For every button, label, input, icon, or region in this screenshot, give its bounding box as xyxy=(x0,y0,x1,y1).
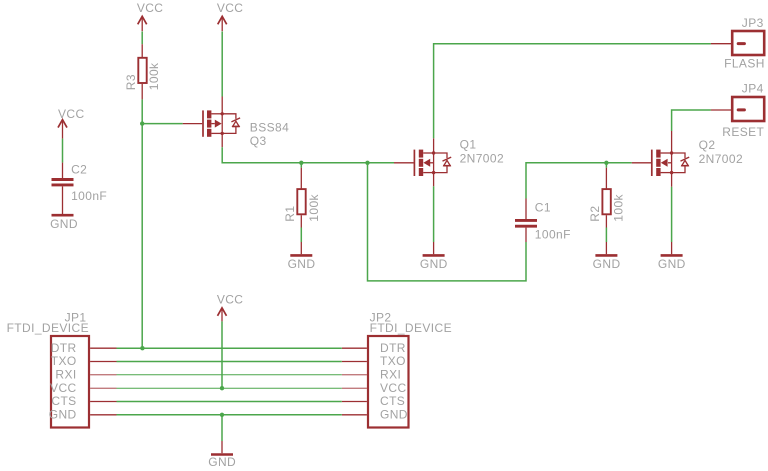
wire VCC to R3 xyxy=(141,32,143,45)
wire GND net xyxy=(117,414,342,416)
svg-text:2N7002: 2N7002 xyxy=(460,151,504,165)
svg-text:100nF: 100nF xyxy=(535,227,571,241)
supply VCC symbol above Q3 xyxy=(217,1,244,31)
svg-text:GND: GND xyxy=(49,407,77,421)
svg-text:CTS: CTS xyxy=(380,394,405,408)
junction node at R2 top xyxy=(604,161,608,165)
wire R3 bottom down to JP1 DTR row xyxy=(141,99,143,348)
wire GND row down to ground xyxy=(221,415,223,441)
svg-text:TXO: TXO xyxy=(380,354,406,368)
svg-text:VCC: VCC xyxy=(58,107,85,121)
svg-text:VCC: VCC xyxy=(217,292,244,306)
svg-text:JP4: JP4 xyxy=(742,82,764,96)
ground GND under C2 xyxy=(50,215,78,231)
junction node at R1 top xyxy=(299,161,303,165)
svg-text:GND: GND xyxy=(658,257,686,271)
wire Q1 drain up and right to JP3 FLASH xyxy=(434,44,711,139)
wire Q3 drain down and right to Q1 gate xyxy=(222,147,394,163)
wire R1 to ground xyxy=(300,228,302,243)
wire RXI net xyxy=(117,374,342,376)
svg-text:GND: GND xyxy=(380,407,408,421)
svg-text:VCC: VCC xyxy=(217,1,244,15)
svg-text:R2: R2 xyxy=(588,206,602,222)
svg-text:VCC: VCC xyxy=(50,381,77,395)
wire Q1 source to ground xyxy=(433,186,435,242)
transistor Q2 2N7002 (N-MOSFET) xyxy=(632,131,743,187)
svg-text:Q3: Q3 xyxy=(250,134,267,148)
wire DTR net JP1 to JP2 xyxy=(117,347,342,349)
svg-text:FTDI_DEVICE: FTDI_DEVICE xyxy=(7,321,89,335)
capacitor C2 100nF xyxy=(52,163,108,215)
wire VCC net xyxy=(117,387,342,389)
junction node DTR column xyxy=(140,346,144,350)
svg-text:JP3: JP3 xyxy=(742,16,764,30)
wire C1 branch: down, right, up to C1 xyxy=(368,163,527,281)
svg-text:DTR: DTR xyxy=(51,341,77,355)
svg-text:TXO: TXO xyxy=(51,354,77,368)
svg-text:100k: 100k xyxy=(612,193,626,221)
junction node at C1 branch xyxy=(365,161,369,165)
wire TXO net xyxy=(117,361,342,363)
wire VCC symbol down to VCC row xyxy=(221,321,223,388)
wire R1 junction stub xyxy=(300,163,302,168)
wire VCC to C2 xyxy=(62,139,64,163)
wire Q2 drain up and right to JP4 RESET xyxy=(672,110,711,131)
resistor R3 100k xyxy=(124,44,161,99)
svg-text:VCC: VCC xyxy=(137,1,164,15)
svg-text:Q2: Q2 xyxy=(699,138,716,152)
wire junction to Q3 gate xyxy=(142,123,183,125)
svg-text:2N7002: 2N7002 xyxy=(699,152,743,166)
ground GND under Q1 xyxy=(420,242,448,271)
supply VCC symbol above JP2 VCC row xyxy=(217,292,244,321)
resistor R1 100k xyxy=(283,168,321,228)
junction node at R3 / Q3 gate xyxy=(140,121,144,125)
svg-text:GND: GND xyxy=(208,455,236,469)
resistor R2 100k xyxy=(588,168,626,228)
wire R2 junction stub xyxy=(605,163,607,168)
svg-text:R1: R1 xyxy=(283,206,297,222)
svg-text:FLASH: FLASH xyxy=(724,57,765,71)
transistor Q1 2N7002 (N-MOSFET) xyxy=(394,138,504,187)
connector JP1 FTDI_DEVICE xyxy=(7,311,117,428)
connector JP3 FLASH xyxy=(711,16,765,70)
svg-text:Q1: Q1 xyxy=(460,138,477,152)
svg-text:100nF: 100nF xyxy=(71,189,107,203)
ground GND under Q2 xyxy=(658,242,686,271)
transistor Q3 BSS84 (P-MOSFET) xyxy=(183,97,289,149)
wire VCC down to Q3 source xyxy=(221,32,223,97)
svg-text:GND: GND xyxy=(50,217,78,231)
capacitor C1 100nF xyxy=(515,199,571,243)
svg-text:RXI: RXI xyxy=(380,367,401,381)
supply VCC symbol above C2 xyxy=(58,107,85,139)
svg-text:100k: 100k xyxy=(307,193,321,221)
svg-text:RESET: RESET xyxy=(722,125,764,139)
svg-text:FTDI_DEVICE: FTDI_DEVICE xyxy=(370,321,452,335)
connector JP4 RESET xyxy=(711,82,765,139)
svg-text:CTS: CTS xyxy=(51,394,76,408)
svg-text:GND: GND xyxy=(288,257,316,271)
svg-text:VCC: VCC xyxy=(380,381,407,395)
svg-text:GND: GND xyxy=(420,257,448,271)
ground GND below JP nets xyxy=(208,441,236,469)
wire CTS net xyxy=(117,401,342,403)
svg-text:GND: GND xyxy=(593,257,621,271)
svg-text:C2: C2 xyxy=(71,163,87,177)
junction node VCC column xyxy=(220,386,224,390)
svg-text:BSS84: BSS84 xyxy=(250,121,289,135)
connector JP2 FTDI_DEVICE xyxy=(342,311,452,428)
ground GND under R2 xyxy=(593,242,621,271)
svg-text:R3: R3 xyxy=(124,74,138,90)
junction node GND column xyxy=(220,413,224,417)
wire Q2 source to ground xyxy=(671,187,673,242)
wire C1 top to mid rail xyxy=(526,163,632,199)
ground GND under R1 xyxy=(288,242,316,271)
svg-text:C1: C1 xyxy=(535,201,551,215)
svg-text:100k: 100k xyxy=(147,62,161,90)
svg-text:DTR: DTR xyxy=(380,341,406,355)
wire R2 to ground xyxy=(605,228,607,243)
supply VCC symbol top-left (net to R3) xyxy=(137,1,164,31)
svg-text:RXI: RXI xyxy=(55,367,76,381)
